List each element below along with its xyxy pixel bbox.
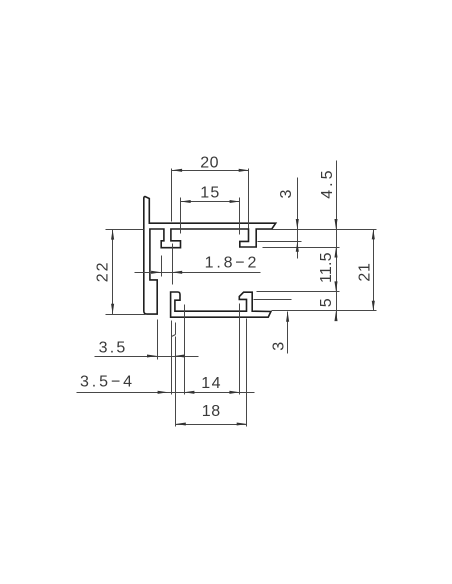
dim 22 arrows (111, 229, 114, 239)
dim 3.5: dimension line (95, 356, 199, 358)
dim 1.8-2 arrows (outside) (151, 271, 161, 274)
dim 22: extension lines (106, 230, 146, 315)
svg-text:21: 21 (357, 262, 374, 281)
dim 3 top right arrows (outside) (296, 219, 299, 229)
svg-text:3: 3 (271, 342, 288, 351)
svg-text:3: 3 (278, 189, 295, 198)
dim 3 top right: shaft (297, 178, 299, 259)
dim 21 arrows (372, 229, 375, 239)
svg-text:15: 15 (200, 184, 220, 201)
dim 3.5: extension line (157, 320, 159, 360)
dim 15: dimension line (181, 201, 240, 203)
profile outline: left flange + top web + down hooks (144, 197, 276, 315)
svg-text:3.5: 3.5 (99, 339, 128, 356)
svg-text:20: 20 (200, 155, 219, 172)
dim 1.8-2: extension lines (162, 244, 173, 285)
svg-text:22: 22 (94, 261, 111, 283)
dim 18 arrows (176, 422, 186, 425)
dim 22: dimension line (112, 230, 114, 315)
svg-text:1.8−2: 1.8−2 (205, 255, 259, 272)
dimension and extension lines (77, 161, 377, 427)
dim 4.5/11.5/5: shaft (336, 161, 338, 321)
dim 18: dimension line (176, 424, 247, 426)
svg-text:3.5−4: 3.5−4 (80, 374, 135, 391)
dimension text labels (80, 155, 374, 420)
dim 15: extension lines (181, 198, 240, 235)
profile outline: lower web + up hooks (171, 292, 271, 317)
svg-text:11.5: 11.5 (318, 252, 335, 283)
bottom extension lines (172, 304, 247, 427)
right extension lines (254, 230, 377, 311)
dim 20 arrows (172, 169, 182, 172)
svg-text:18: 18 (202, 403, 221, 420)
dim 3.5 arrows (outside) (147, 354, 157, 357)
dim 1.8-2: dimension line (135, 272, 261, 274)
dim 3.5-4 and 14: dimension line (77, 392, 255, 394)
svg-text:5: 5 (318, 298, 335, 307)
svg-text:14: 14 (201, 375, 222, 392)
dim 20: dimension line (172, 170, 249, 172)
svg-text:4.5: 4.5 (319, 167, 336, 198)
dim 3 bottom right: shaft (287, 312, 289, 354)
dim 15 arrows (181, 200, 191, 203)
dim 3.5-4 / 14 arrows (158, 391, 168, 394)
dim 3 bottom right arrow (286, 312, 289, 322)
arrowheads (111, 169, 375, 426)
dim 4.5 / 11.5 / 5 arrows (334, 219, 337, 229)
dim 21: shaft (373, 230, 375, 311)
dim 20: extension lines (172, 169, 249, 229)
